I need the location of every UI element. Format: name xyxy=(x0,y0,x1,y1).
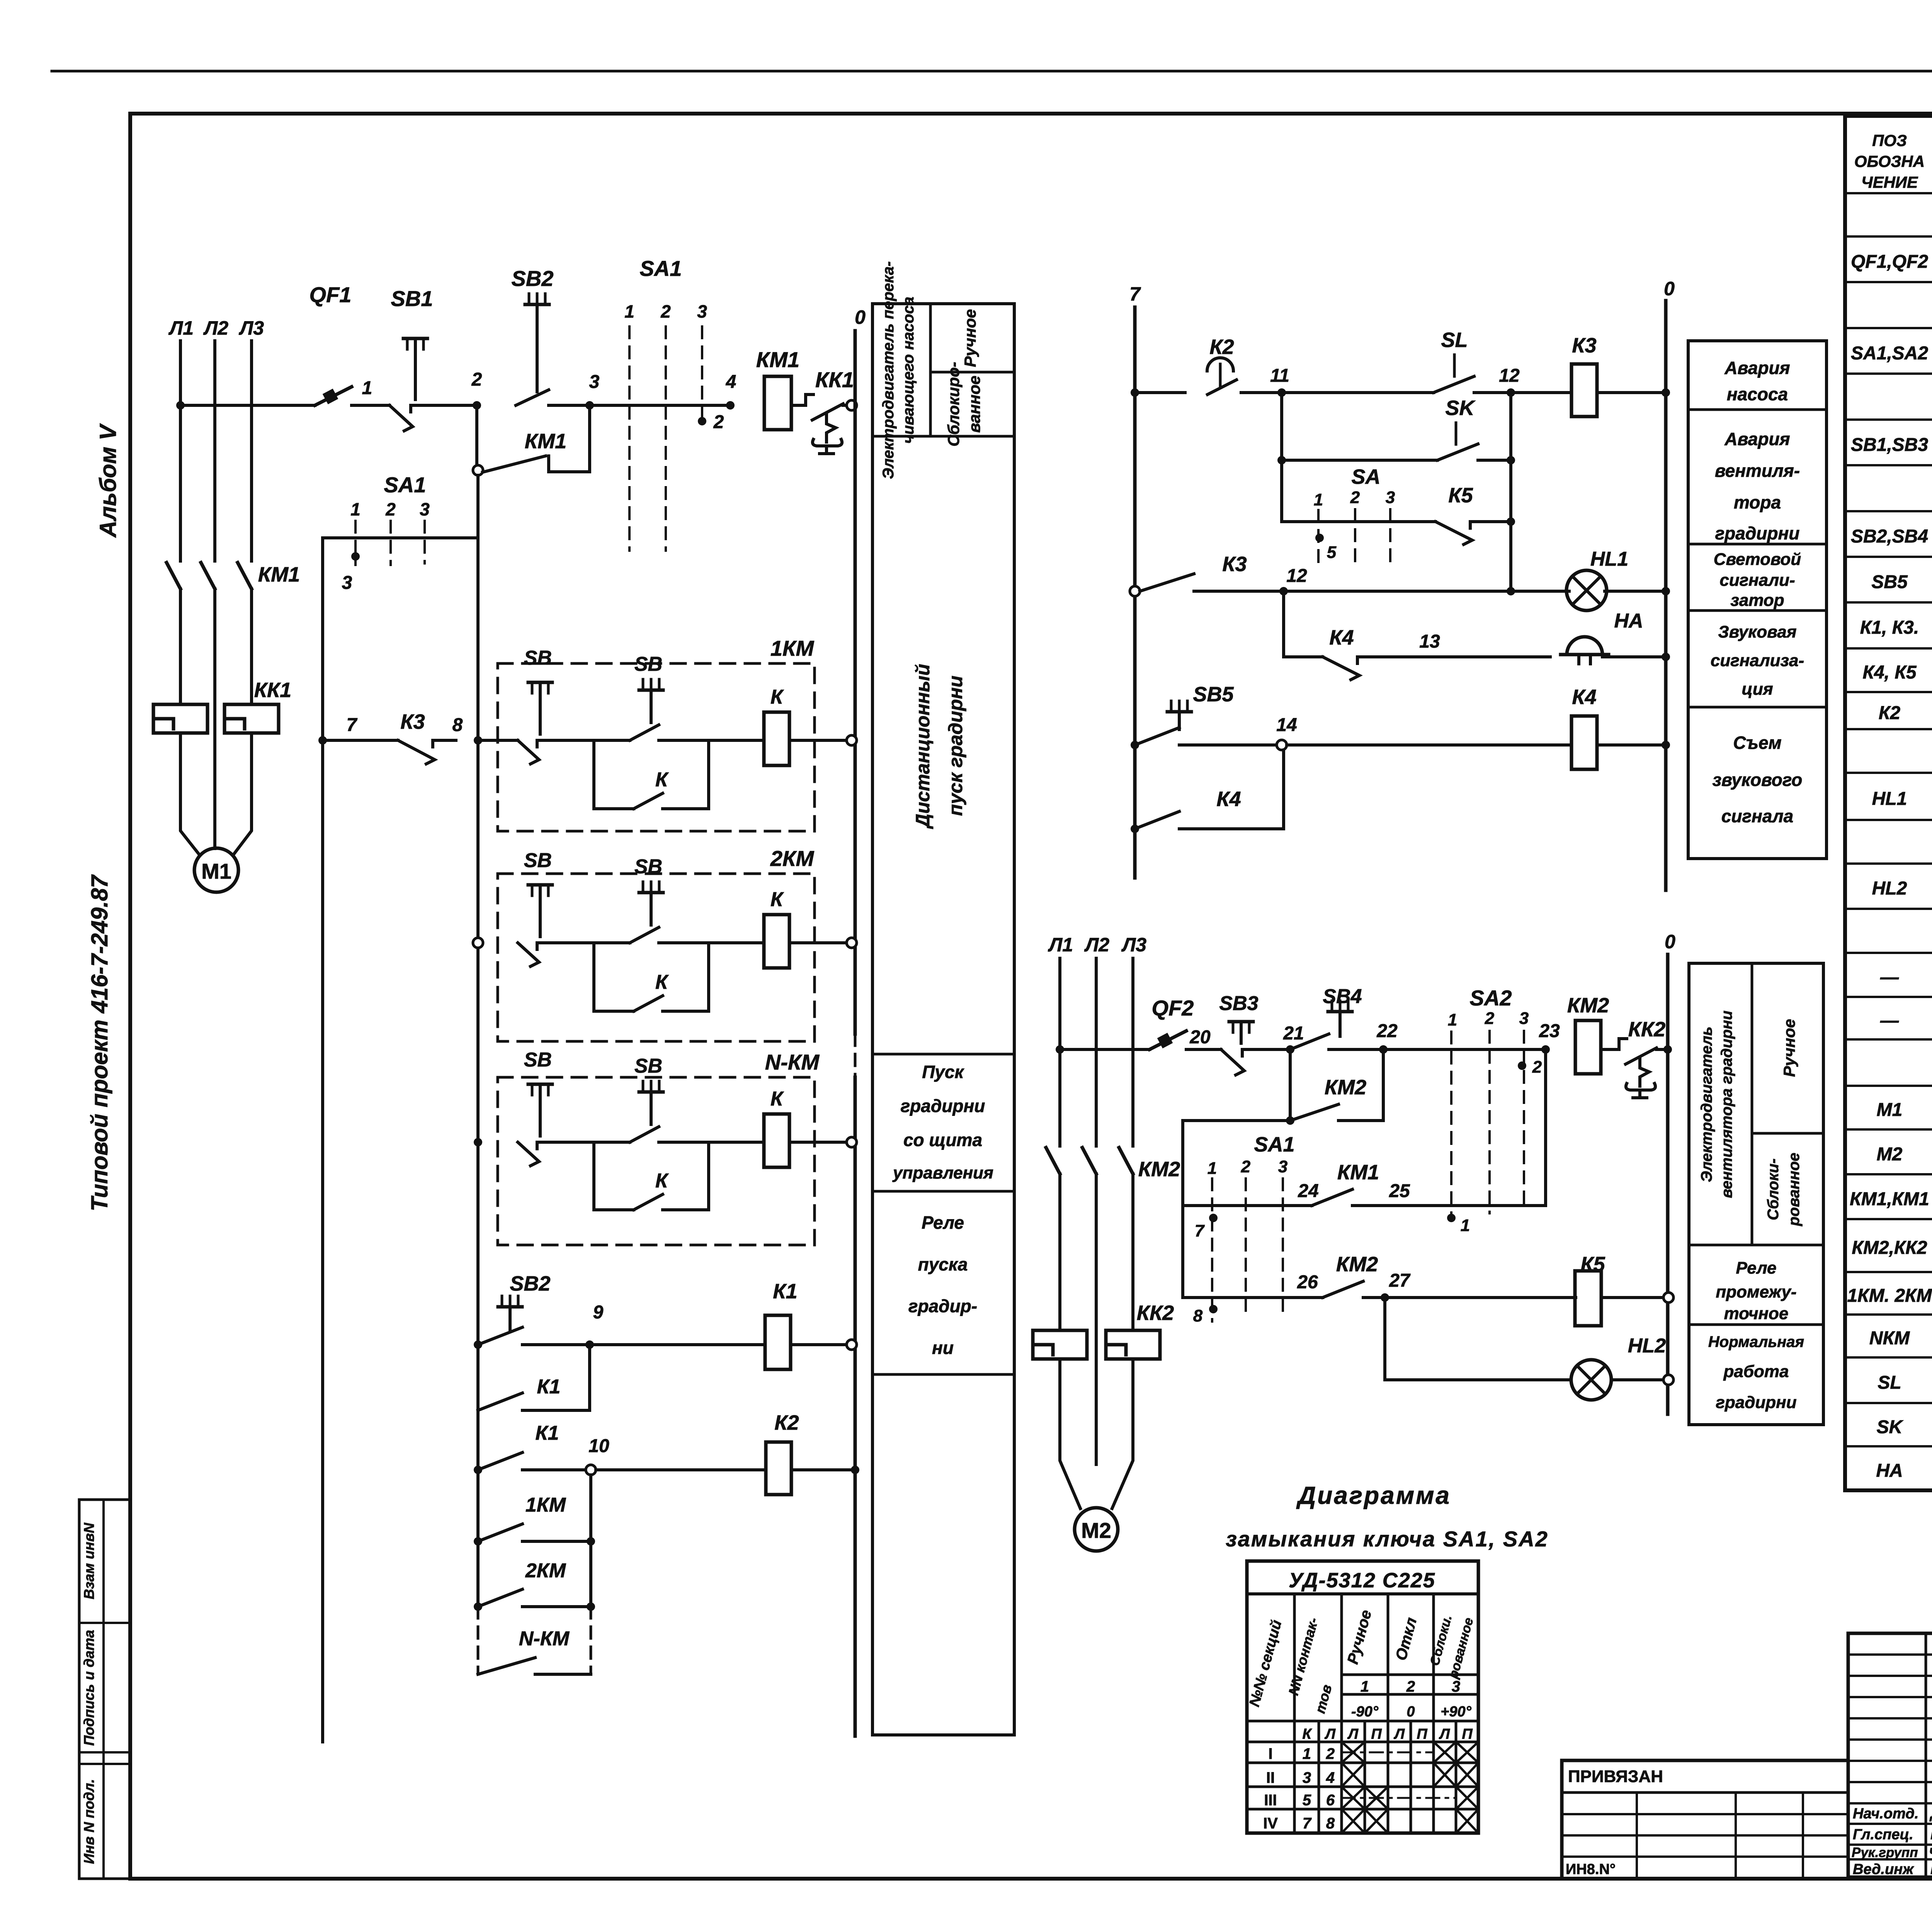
table row M1 xyxy=(1877,1096,1932,1121)
svg-text:13: 13 xyxy=(1419,631,1440,652)
table row SK xyxy=(1877,1415,1932,1438)
thermal contact KK1 xyxy=(806,395,852,454)
wire number 24 xyxy=(1298,1181,1318,1201)
svg-text:20: 20 xyxy=(1189,1027,1211,1048)
label KK2 heaters xyxy=(1137,1301,1174,1325)
label K5 coil xyxy=(1580,1253,1605,1276)
svg-text:НА: НА xyxy=(1876,1461,1903,1481)
riser node11 down xyxy=(1280,393,1283,522)
relay contact K5 NC xyxy=(1435,522,1493,544)
label HA xyxy=(1614,610,1643,632)
wire SB1 to node2 xyxy=(434,404,477,407)
label KM2 coil xyxy=(1567,994,1609,1017)
wire phase L3 xyxy=(250,341,253,561)
wire number 23 xyxy=(1539,1021,1560,1041)
svg-text:вентиля-: вентиля- xyxy=(1715,461,1800,481)
label K3 row HL1 xyxy=(1222,553,1247,576)
svg-text:Электродвигатель перека-: Электродвигатель перека- xyxy=(880,261,897,479)
UD row 123 xyxy=(1361,1678,1460,1695)
pushbutton SB3 plunger xyxy=(1229,1022,1253,1043)
dashed box 2КМ xyxy=(498,874,815,1041)
wire node2 to KM1 aux xyxy=(475,405,478,466)
UD col header otkl xyxy=(1393,1616,1420,1662)
svg-text:П: П xyxy=(1417,1726,1427,1742)
svg-text:SA1,SA2: SA1,SA2 xyxy=(1851,343,1928,364)
svg-text:Л3: Л3 xyxy=(1121,934,1146,956)
svg-text:3: 3 xyxy=(420,499,430,519)
relay contact K2 latched xyxy=(1135,358,1257,395)
wire node22 to node23 xyxy=(1383,1048,1546,1051)
label KM1 main contacts xyxy=(258,563,300,586)
pushbutton SB stop in N-КМ xyxy=(518,1049,560,1166)
terminal rail0c K5 xyxy=(1663,1293,1673,1303)
svg-text:ПРИВЯЗАН: ПРИВЯЗАН xyxy=(1568,1767,1663,1786)
privyazan text xyxy=(1568,1767,1663,1786)
node 4 xyxy=(726,401,735,410)
svg-text:КМ2: КМ2 xyxy=(1567,994,1609,1017)
wire SB3 to node21 xyxy=(1265,1048,1290,1051)
svg-text:КМ2: КМ2 xyxy=(1325,1076,1366,1099)
breaker QF1 xyxy=(315,387,352,405)
svg-text:Авария: Авария xyxy=(1724,429,1790,449)
wire coil to KK1 xyxy=(791,404,806,407)
pushbutton SB4 plunger xyxy=(1328,1001,1352,1036)
node KM2aux xyxy=(1286,1116,1294,1125)
phase label L2 xyxy=(203,317,228,339)
wire SL to node12 xyxy=(1492,391,1511,394)
svg-text:К1, К3.: К1, К3. xyxy=(1860,617,1919,638)
phase label L3 xyxy=(239,317,264,339)
node SB2 row tap xyxy=(474,1340,482,1349)
pushbutton SB3 contact xyxy=(1221,1049,1265,1075)
svg-text:QF1: QF1 xyxy=(310,282,352,307)
riser node23 down xyxy=(1544,1049,1547,1206)
wire number 3 xyxy=(589,372,600,392)
title block signatures labels xyxy=(1852,1806,1932,1878)
stamp strip label Inv N podl xyxy=(81,1779,97,1864)
privyazan box xyxy=(1562,1760,1848,1879)
stamp strip label Vzam inv N xyxy=(81,1522,97,1599)
svg-text:К2: К2 xyxy=(1209,335,1234,359)
wire number 21 xyxy=(1283,1023,1304,1044)
label K5 contact xyxy=(1448,484,1473,507)
wire number 27 xyxy=(1389,1270,1411,1291)
svg-text:SB: SB xyxy=(634,653,662,675)
svg-text:1: 1 xyxy=(1314,490,1323,509)
svg-text:К3: К3 xyxy=(1222,553,1247,576)
mid rail dashed between boxes xyxy=(477,1034,480,1077)
svg-text:КМ1: КМ1 xyxy=(1337,1161,1379,1184)
terminal rail N-КМ xyxy=(847,1137,857,1147)
left rail xyxy=(321,538,324,1742)
column A text syom xyxy=(1713,733,1803,826)
svg-text:М1: М1 xyxy=(1877,1100,1903,1120)
svg-text:Световой: Световой xyxy=(1714,550,1801,569)
wire number 10 xyxy=(588,1436,609,1456)
svg-text:22: 22 xyxy=(1376,1021,1398,1041)
node 27 xyxy=(1381,1293,1389,1302)
svg-text:2: 2 xyxy=(713,412,724,432)
switch SA1c label xyxy=(1254,1133,1294,1156)
svg-text:SB1: SB1 xyxy=(391,286,433,311)
svg-text:К2: К2 xyxy=(1879,703,1901,723)
contact N-KM dashed row xyxy=(478,1658,591,1674)
svg-text:10: 10 xyxy=(588,1436,609,1456)
svg-text:работа: работа xyxy=(1723,1362,1789,1381)
svg-text:ИН8.N°: ИН8.N° xyxy=(1566,1861,1616,1878)
svg-text:2КМ: 2КМ xyxy=(525,1560,566,1582)
motor M1 xyxy=(194,848,238,892)
UD row numerals xyxy=(1263,1745,1335,1832)
svg-text:3: 3 xyxy=(697,301,707,321)
node 3 xyxy=(585,401,594,410)
wire row14 to coil K4 xyxy=(1287,743,1571,747)
left margin stamp strip xyxy=(79,1500,130,1879)
column c1 label Rele puska xyxy=(908,1213,977,1358)
wire to coil in N-КМ xyxy=(676,1141,763,1144)
table row QF1 xyxy=(1851,248,1932,273)
node SA row right xyxy=(1507,517,1515,526)
node r7 row11 xyxy=(1131,388,1139,397)
table row lampa xyxy=(1880,963,1932,988)
svg-text:25: 25 xyxy=(1389,1181,1410,1201)
column c1 rotated motor label xyxy=(880,261,917,479)
label SB1 xyxy=(391,286,433,311)
UD col header ruchnoe xyxy=(1344,1608,1375,1666)
UD col header kontaktov xyxy=(1285,1616,1335,1715)
svg-text:градирни: градирни xyxy=(901,1096,985,1116)
contact SK xyxy=(1437,423,1495,460)
relay coil K5 xyxy=(1575,1271,1601,1326)
wire phase L2 m2 xyxy=(1095,958,1098,1146)
label QF1 xyxy=(310,282,352,307)
svg-text:1КМ. 2КМ: 1КМ. 2КМ xyxy=(1847,1286,1932,1306)
KM1 aux terminal circle xyxy=(473,465,483,475)
SA2 dashed col1 xyxy=(1450,1032,1452,1213)
wire coil K3 to rail xyxy=(1597,391,1666,394)
SA position dot 5 xyxy=(1315,534,1337,562)
wire phase L2 lower xyxy=(213,589,216,835)
wire number 4 xyxy=(726,372,736,392)
wire to coil in 2КМ xyxy=(676,941,763,944)
svg-text:1: 1 xyxy=(1448,1010,1457,1029)
svg-text:К4: К4 xyxy=(1216,787,1241,811)
riser node27 down xyxy=(1383,1298,1386,1380)
wire number 25 xyxy=(1389,1181,1410,1201)
svg-text:1: 1 xyxy=(1461,1216,1470,1235)
label KM2 aux xyxy=(1325,1076,1366,1099)
svg-text:N-КМ: N-КМ xyxy=(765,1050,820,1074)
svg-text:SB2: SB2 xyxy=(512,266,554,291)
label KK1 xyxy=(815,367,854,392)
left margin label project code xyxy=(87,874,112,1211)
svg-text:Ручное: Ручное xyxy=(961,309,979,367)
svg-text:замыкания ключа SA1, SA2: замыкания ключа SA1, SA2 xyxy=(1226,1527,1549,1551)
node rail row10 xyxy=(851,1466,859,1474)
svg-text:КМ2,КК2: КМ2,КК2 xyxy=(1852,1238,1927,1258)
label K1 coil xyxy=(773,1280,797,1303)
svg-text:Инв N подл.: Инв N подл. xyxy=(81,1779,97,1864)
svg-text:QF1,QF2: QF1,QF2 xyxy=(1851,252,1928,272)
wire row11 to SL xyxy=(1282,391,1434,394)
svg-text:3: 3 xyxy=(1278,1157,1287,1176)
svg-text:IV: IV xyxy=(1263,1815,1278,1832)
wire L3 m2 to motor xyxy=(1112,1359,1133,1509)
parallel contact K1 bridge xyxy=(478,1345,590,1410)
label K3 row7 xyxy=(400,710,425,733)
pushbutton SB4 contact xyxy=(1290,1034,1346,1049)
node chain 1KM right xyxy=(587,1537,595,1546)
SA dashed col3 xyxy=(1389,509,1391,562)
table row NKM xyxy=(1869,1324,1932,1349)
svg-text:точное: точное xyxy=(1724,1304,1789,1323)
svg-text:SK: SK xyxy=(1445,396,1476,420)
svg-text:2: 2 xyxy=(1350,488,1360,507)
svg-text:3: 3 xyxy=(1303,1769,1311,1786)
pushbutton SB start in 2КМ xyxy=(630,855,676,943)
svg-text:4: 4 xyxy=(1326,1769,1335,1786)
svg-text:+90°: +90° xyxy=(1440,1704,1471,1720)
top margin line xyxy=(52,70,1932,73)
label column B box xyxy=(1689,963,1823,1425)
svg-text:2КМ: 2КМ xyxy=(770,846,815,871)
pushbutton SB2 plunger xyxy=(525,294,549,392)
node 10 xyxy=(586,1465,596,1475)
SA1 dashed column 3 xyxy=(701,327,703,427)
svg-text:1КМ: 1КМ xyxy=(770,636,815,660)
svg-text:SB: SB xyxy=(524,1049,552,1071)
node 12b xyxy=(1279,587,1288,595)
wire SB to bridge in N-КМ xyxy=(560,1141,630,1144)
svg-text:Альбом V: Альбом V xyxy=(95,423,121,538)
svg-text:пуск градирни: пуск градирни xyxy=(945,675,966,816)
wire K5 to riser xyxy=(1493,520,1511,523)
svg-text:ИВАНОВ: ИВАНОВ xyxy=(1930,1861,1932,1878)
wire K4aux corner xyxy=(1197,750,1284,829)
wire K4 to bell xyxy=(1381,655,1550,658)
svg-text:звукового: звукового xyxy=(1713,770,1803,790)
svg-text:SB: SB xyxy=(634,855,662,878)
svg-text:К1: К1 xyxy=(536,1422,559,1444)
table header poz xyxy=(1854,131,1925,191)
wire number 20 xyxy=(1189,1027,1211,1048)
svg-text:УД-5312 С225: УД-5312 С225 xyxy=(1289,1569,1435,1592)
svg-text:П: П xyxy=(1462,1726,1473,1742)
svg-text:SK: SK xyxy=(1877,1417,1904,1437)
svg-text:Л1: Л1 xyxy=(1048,934,1073,956)
contactor KM1 main contact pole2 xyxy=(201,563,215,589)
parallel aux contact K in 1КМ xyxy=(594,740,709,809)
svg-text:SB1,SB3: SB1,SB3 xyxy=(1851,435,1928,455)
svg-text:Л: Л xyxy=(1324,1726,1336,1742)
wire L2 to motor xyxy=(213,835,216,849)
wire number 2 xyxy=(471,369,482,390)
label K4 aux xyxy=(1216,787,1241,811)
relay coil K in 1КМ xyxy=(764,686,789,765)
svg-text:КК1: КК1 xyxy=(254,679,291,702)
svg-text:КМ2: КМ2 xyxy=(1336,1253,1378,1276)
svg-text:сигнализа-: сигнализа- xyxy=(1711,651,1804,670)
label QF2 xyxy=(1152,996,1194,1020)
terminal rail7 HL1 row xyxy=(1130,586,1140,596)
svg-text:7: 7 xyxy=(1129,283,1141,305)
node L1 m2 bus tap xyxy=(1056,1045,1064,1054)
node unit2 tap xyxy=(473,938,483,948)
node chain 2KM left xyxy=(474,1602,482,1611)
wire HL2 row xyxy=(1385,1378,1571,1381)
wire L1 to motor xyxy=(180,733,199,855)
wire row24 xyxy=(1183,1204,1312,1207)
wire number 11 xyxy=(1270,366,1289,386)
table row SL xyxy=(1878,1371,1932,1393)
svg-text:SB5: SB5 xyxy=(1193,683,1234,706)
relay coil K1 xyxy=(765,1315,791,1369)
thermal relay KK1 heater pole3 xyxy=(224,704,279,733)
svg-text:ванное: ванное xyxy=(965,376,983,433)
wire row SK xyxy=(1282,459,1437,462)
contact 2KM xyxy=(478,1589,591,1607)
relay coil K4 xyxy=(1571,716,1597,769)
wire phase L2 xyxy=(213,341,216,561)
table row K2 xyxy=(1879,699,1932,724)
column A text zvukovaya xyxy=(1711,622,1804,699)
contactor KM2 interlock contact xyxy=(1323,1281,1381,1298)
svg-text:К2: К2 xyxy=(774,1411,799,1434)
wire row27 to K5 xyxy=(1381,1296,1576,1299)
rail 7 label xyxy=(1129,283,1141,305)
motor M2 xyxy=(1075,1508,1118,1551)
svg-text:5: 5 xyxy=(1327,543,1337,562)
svg-text:0: 0 xyxy=(1665,931,1675,952)
svg-text:Рук.групп: Рук.групп xyxy=(1852,1845,1918,1860)
rail 0 lower xyxy=(854,1077,857,1736)
svg-text:К5: К5 xyxy=(1580,1253,1605,1276)
contactor coil KM1 xyxy=(764,376,791,430)
svg-text:12: 12 xyxy=(1499,366,1520,386)
svg-text:К: К xyxy=(1302,1726,1312,1742)
wire coil K4 to rail xyxy=(1597,743,1666,747)
wire row9 to coil K1 xyxy=(590,1343,765,1346)
svg-text:ПОЗ: ПОЗ xyxy=(1872,131,1907,150)
label SL xyxy=(1441,328,1468,352)
svg-text:14: 14 xyxy=(1276,715,1297,735)
svg-text:9: 9 xyxy=(593,1302,604,1323)
pushbutton SB5 plunger xyxy=(1167,701,1191,730)
svg-text:SB5: SB5 xyxy=(1871,572,1908,592)
stamp strip label Podpis i data xyxy=(81,1630,97,1746)
dashed box N-КМ xyxy=(498,1077,815,1245)
wire phase L1 m2 xyxy=(1058,958,1061,1146)
svg-text:0: 0 xyxy=(855,306,866,328)
svg-text:ОБОЗНА: ОБОЗНА xyxy=(1854,152,1925,170)
SA1b position dot xyxy=(342,552,360,593)
SA1 position labels 1 2 3 xyxy=(624,301,707,321)
wire KM2aux to left xyxy=(1183,1119,1290,1122)
label K2 contact xyxy=(1209,335,1234,359)
wire L1 m2 to motor xyxy=(1060,1359,1080,1509)
svg-text:27: 27 xyxy=(1389,1270,1411,1291)
svg-text:1: 1 xyxy=(1303,1745,1311,1762)
svg-text:QF2: QF2 xyxy=(1152,996,1194,1020)
terminal on rail 0 row1 xyxy=(847,400,857,410)
lamp HL1 xyxy=(1566,570,1607,611)
SA2 dashed col3 xyxy=(1523,1031,1525,1209)
svg-text:2: 2 xyxy=(1241,1157,1251,1176)
svg-text:HL1: HL1 xyxy=(1872,789,1907,809)
relay contact K1 NO row10 xyxy=(478,1452,586,1470)
svg-text:2: 2 xyxy=(471,369,482,390)
svg-text:тора: тора xyxy=(1734,492,1781,512)
svg-text:М2: М2 xyxy=(1877,1144,1903,1165)
svg-text:NКМ: NКМ xyxy=(1869,1328,1910,1349)
label KM1 coil xyxy=(756,347,799,372)
switch SA1 second label xyxy=(384,473,426,497)
label K4 contact xyxy=(1329,626,1354,649)
node 12 riser join xyxy=(1507,456,1515,464)
pushbutton SB2 contact xyxy=(516,390,566,405)
rail 7 xyxy=(1133,307,1137,878)
svg-text:Съем: Съем xyxy=(1733,733,1781,753)
dashed box 1КМ xyxy=(498,663,815,831)
rail 0b label xyxy=(1664,278,1675,299)
wire L3 to motor xyxy=(233,733,252,855)
UD table title xyxy=(1289,1569,1435,1592)
svg-text:-90°: -90° xyxy=(1351,1704,1379,1720)
rail segment mid 1 xyxy=(476,740,480,943)
svg-text:3: 3 xyxy=(1452,1678,1460,1695)
node 22 xyxy=(1379,1045,1388,1054)
svg-text:Авария: Авария xyxy=(1724,358,1790,378)
wire row SA xyxy=(1282,520,1435,523)
node 23 xyxy=(1541,1045,1550,1054)
svg-text:3: 3 xyxy=(589,372,600,392)
node chain 1KM left xyxy=(474,1537,482,1546)
svg-text:I: I xyxy=(1268,1745,1272,1762)
contactor KM2 main pole1 xyxy=(1046,1148,1060,1174)
svg-text:Л1: Л1 xyxy=(168,317,194,339)
wire row10 to coil K2 xyxy=(596,1468,766,1471)
riser node21 down xyxy=(1289,1049,1292,1121)
svg-text:ция: ция xyxy=(1742,680,1773,699)
components table grid xyxy=(1845,116,1932,1490)
relay contact K4 NC xyxy=(1323,657,1381,680)
svg-text:затор: затор xyxy=(1730,591,1784,610)
svg-text:К: К xyxy=(655,769,669,791)
svg-text:Чернобыльский: Чернобыльский xyxy=(1929,1845,1932,1860)
SA1c dashed col2 xyxy=(1245,1179,1247,1318)
relay coil K2 xyxy=(766,1442,791,1495)
label KM1 interlock xyxy=(1337,1161,1379,1184)
svg-text:градирни: градирни xyxy=(1716,1393,1796,1412)
wire phase L1 lower xyxy=(179,589,182,704)
svg-text:Диаграмма: Диаграмма xyxy=(1296,1481,1451,1509)
relay contact K3 NC xyxy=(398,740,456,764)
svg-text:Л2: Л2 xyxy=(1084,934,1109,956)
terminal rail 2КМ xyxy=(847,938,857,948)
svg-text:4: 4 xyxy=(726,372,736,392)
svg-text:со щита: со щита xyxy=(903,1130,982,1150)
svg-text:21: 21 xyxy=(1283,1023,1304,1044)
svg-text:SB: SB xyxy=(524,849,552,872)
parallel aux contact K in 2КМ xyxy=(594,943,709,1011)
svg-text:Л: Л xyxy=(1347,1726,1359,1742)
wire phase L1 xyxy=(179,341,182,561)
contactor KM2 main pole3 xyxy=(1119,1148,1133,1174)
riser dashed right xyxy=(590,1607,592,1674)
wire K5 to rail xyxy=(1601,1296,1668,1299)
label KK2 xyxy=(1628,1018,1665,1041)
contact 1KM xyxy=(478,1524,591,1541)
